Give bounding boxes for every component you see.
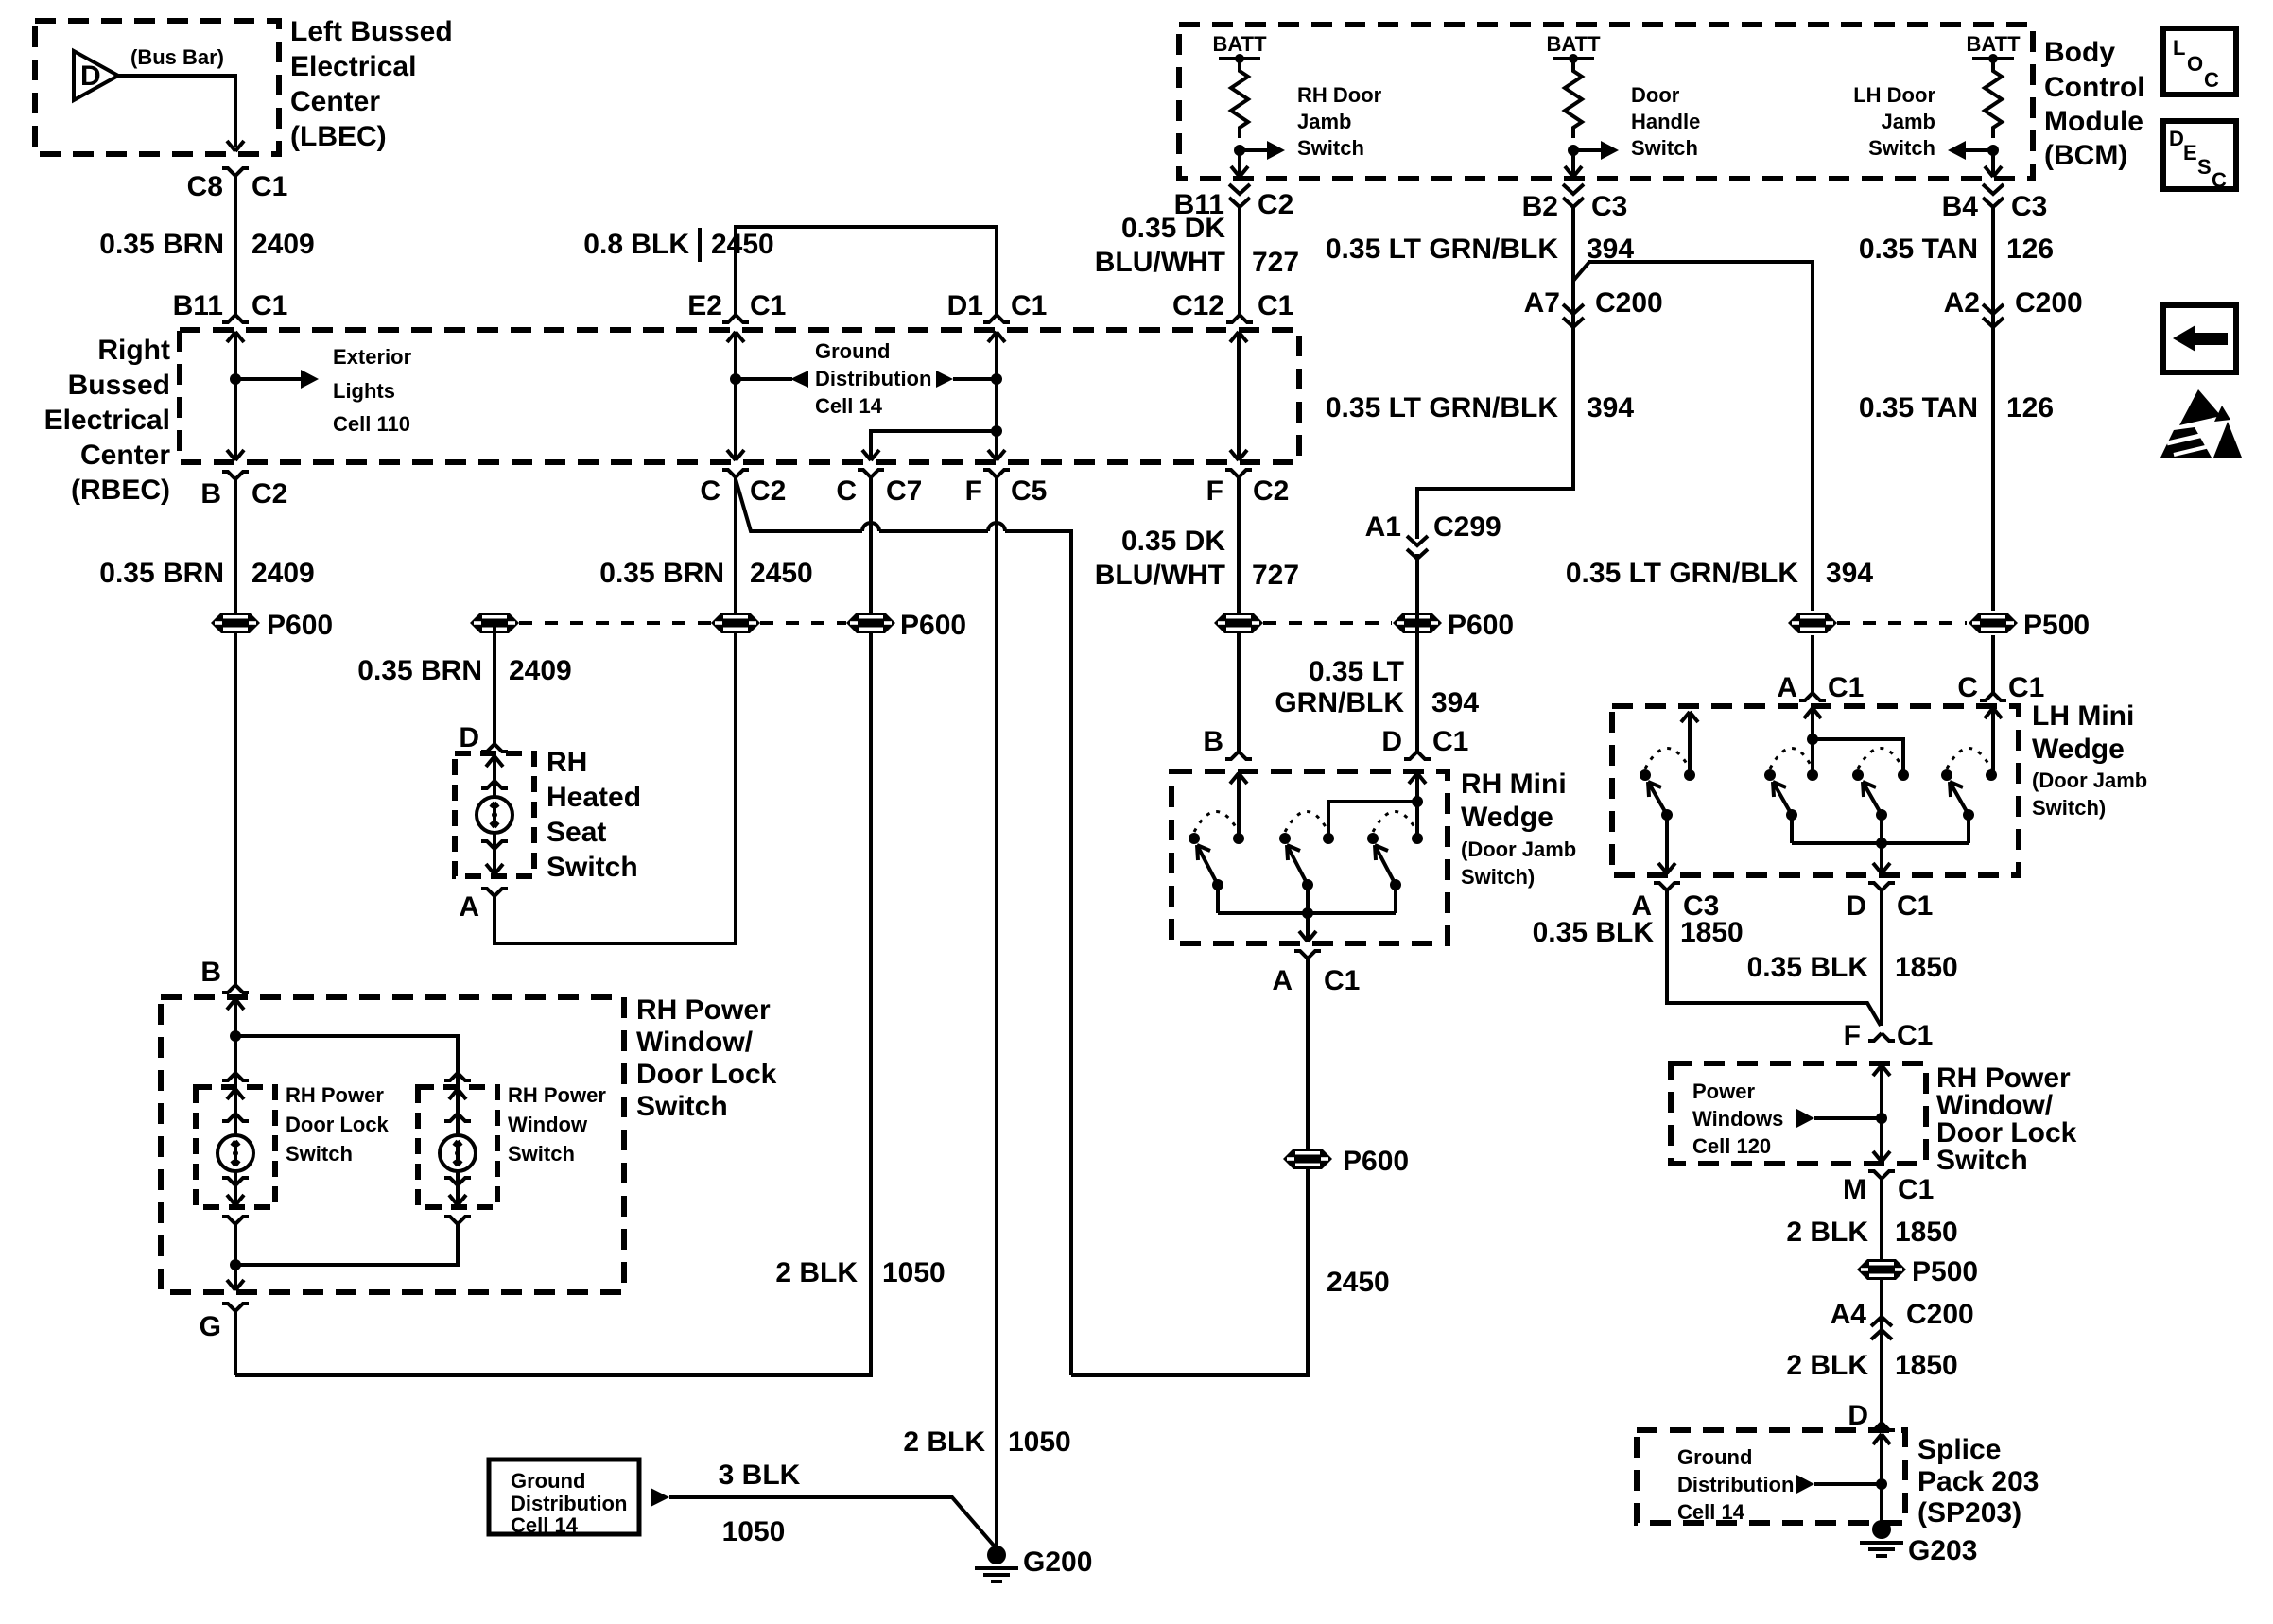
connector B4/C3 [1983, 184, 2004, 207]
svg-text:C1: C1 [1324, 965, 1360, 996]
connector D/C1 below LH wedge [1868, 883, 1895, 890]
connector D of heated seat switch [481, 744, 508, 752]
LH wedge C entry [1985, 708, 2002, 775]
svg-text:B: B [200, 957, 221, 988]
svg-text:LH Door: LH Door [1853, 83, 1935, 107]
svg-text:B11: B11 [173, 290, 223, 321]
svg-text:D: D [2169, 127, 2184, 150]
LH wedge switch 2 [1764, 749, 1818, 844]
wire B2 down [1571, 206, 1575, 326]
svg-text:(Bus Bar): (Bus Bar) [130, 45, 224, 69]
splice pack internals [1677, 1434, 1890, 1524]
svg-text:B2: B2 [1522, 191, 1558, 222]
svg-text:126: 126 [2006, 233, 2054, 265]
svg-text:E: E [2183, 141, 2197, 164]
svg-text:0.8 BLK: 0.8 BLK [583, 229, 689, 260]
svg-text:0.35 BLK: 0.35 BLK [1747, 952, 1869, 983]
svg-text:C8: C8 [187, 171, 223, 202]
svg-text:1050: 1050 [882, 1257, 946, 1288]
svg-text:Door: Door [1631, 83, 1680, 107]
svg-text:C12: C12 [1172, 290, 1224, 321]
svg-text:1850: 1850 [1895, 1350, 1958, 1381]
svg-text:E2: E2 [687, 290, 722, 321]
svg-text:C1: C1 [2008, 672, 2044, 703]
left arrow icon [2163, 305, 2236, 372]
ground G200 [975, 1546, 1018, 1583]
heated seat switch internals [477, 756, 512, 874]
svg-text:Ground: Ground [511, 1469, 585, 1493]
connector B2/C3 [1563, 184, 1584, 207]
svg-text:P600: P600 [1448, 610, 1514, 641]
svg-text:0.35 BLK: 0.35 BLK [1533, 917, 1655, 948]
svg-text:0.35 LT GRN/BLK: 0.35 LT GRN/BLK [1326, 392, 1558, 423]
arrow from ground distribution box [651, 1488, 669, 1507]
svg-text:C1: C1 [1897, 1020, 1933, 1051]
svg-text:G203: G203 [1908, 1535, 1977, 1566]
svg-text:0.35 LT GRN/BLK: 0.35 LT GRN/BLK [1326, 233, 1558, 265]
RH Power Window Switch inner box [418, 1087, 497, 1207]
svg-text:C1: C1 [750, 290, 786, 321]
svg-text:Left Bussed: Left Bussed [290, 16, 453, 47]
svg-text:Power: Power [1692, 1080, 1755, 1103]
splice P600 [211, 613, 260, 633]
Right Bussed Electrical Center (RBEC) box [180, 330, 1299, 462]
svg-text:D: D [459, 722, 479, 753]
BCM RH door jamb switch circuit [1212, 32, 1381, 177]
svg-text:0.35 DK: 0.35 DK [1121, 213, 1225, 244]
connector C/C7 [858, 470, 884, 477]
svg-text:Jamb: Jamb [1297, 110, 1351, 133]
svg-text:C1: C1 [1897, 890, 1933, 922]
svg-text:Door Lock: Door Lock [286, 1113, 390, 1136]
svg-text:RH Power: RH Power [286, 1083, 384, 1107]
svg-text:C200: C200 [1906, 1299, 1974, 1330]
wire 2409 to P600 [234, 479, 237, 985]
svg-text:(LBEC): (LBEC) [290, 121, 387, 152]
svg-text:D: D [1846, 890, 1866, 922]
switch box feed wires [222, 999, 471, 1087]
RBEC internal wire left column [227, 332, 412, 460]
dashes between P500 splices [1837, 621, 1967, 625]
svg-text:RH Door: RH Door [1297, 83, 1382, 107]
svg-text:BATT: BATT [1212, 32, 1267, 56]
BCM door handle switch circuit [1546, 32, 1700, 177]
svg-text:1050: 1050 [1008, 1426, 1071, 1458]
svg-text:L: L [2173, 36, 2185, 60]
svg-text:1050: 1050 [722, 1516, 786, 1547]
svg-text:B: B [200, 478, 221, 510]
connector A/C3 below LH wedge [1654, 883, 1680, 890]
splice P500 lower [1857, 1259, 1906, 1280]
svg-text:C2: C2 [252, 478, 287, 510]
svg-text:2409: 2409 [252, 558, 315, 589]
splice P600 heated seat branch [470, 613, 519, 633]
RH Heated Seat Switch box [455, 753, 534, 876]
RH wedge output bus [1218, 907, 1396, 942]
svg-text:0.35 BRN: 0.35 BRN [599, 558, 724, 589]
svg-text:C2: C2 [750, 475, 786, 507]
svg-text:BLU/WHT: BLU/WHT [1095, 560, 1225, 591]
svg-text:A: A [1777, 672, 1797, 703]
RH wedge switch 1 [1189, 812, 1244, 914]
RH wedge switch 3 [1367, 812, 1423, 914]
svg-text:A2: A2 [1944, 287, 1980, 319]
Body Control Module (BCM) box [1179, 25, 2033, 179]
svg-text:(Door Jamb: (Door Jamb [2032, 769, 2147, 792]
svg-text:Control: Control [2044, 72, 2145, 103]
svg-text:S: S [2197, 155, 2212, 179]
svg-text:C1: C1 [1258, 290, 1293, 321]
svg-text:BATT: BATT [1546, 32, 1601, 56]
svg-text:Center: Center [80, 440, 170, 471]
svg-text:2409: 2409 [252, 229, 315, 260]
svg-text:F: F [1206, 475, 1223, 507]
connector A/C1 LH wedge [1799, 693, 1826, 700]
svg-text:Module: Module [2044, 106, 2143, 137]
splice P600 [1283, 1149, 1332, 1169]
wire C/C2 down to heated seat loop [495, 477, 736, 943]
svg-text:Cell 14: Cell 14 [1677, 1500, 1745, 1524]
hop over C7 wire [862, 523, 879, 531]
svg-text:2450: 2450 [1327, 1267, 1390, 1298]
wire G to C7 column [234, 1311, 237, 1375]
svg-text:Switch: Switch [636, 1091, 728, 1122]
svg-text:B4: B4 [1942, 191, 1979, 222]
svg-text:C3: C3 [2011, 191, 2047, 222]
connector B above power window switch box [222, 985, 249, 993]
connector C/C2 [722, 470, 749, 477]
connector G [222, 1304, 249, 1311]
svg-text:Exterior: Exterior [333, 345, 412, 369]
wire from bus bar to C8 [118, 76, 235, 147]
svg-text:Ground: Ground [815, 339, 890, 363]
svg-text:0.35 BRN: 0.35 BRN [99, 558, 224, 589]
svg-text:Lights: Lights [333, 379, 395, 403]
svg-text:C2: C2 [1253, 475, 1289, 507]
svg-text:C3: C3 [1591, 191, 1627, 222]
LH wedge output bus [1792, 838, 1969, 873]
svg-text:Distribution: Distribution [1677, 1473, 1794, 1496]
svg-text:394: 394 [1587, 392, 1634, 423]
wire 2409 LBEC to RBEC [234, 176, 237, 315]
arrow to Exterior Lights [235, 377, 301, 381]
svg-text:Center: Center [290, 86, 380, 117]
wire P500 to LH wedge A [1811, 635, 1814, 693]
svg-text:Switch: Switch [286, 1142, 353, 1166]
svg-text:Electrical: Electrical [290, 51, 416, 82]
svg-text:2409: 2409 [509, 655, 572, 686]
svg-text:2 BLK: 2 BLK [1786, 1350, 1868, 1381]
BCM LH door jamb switch circuit [1853, 32, 2021, 177]
svg-text:0.35 BRN: 0.35 BRN [357, 655, 482, 686]
svg-text:Window/: Window/ [636, 1027, 754, 1058]
svg-text:727: 727 [1252, 247, 1299, 278]
svg-text:D1: D1 [947, 290, 983, 321]
svg-text:C: C [2204, 68, 2219, 92]
svg-text:RH Power: RH Power [636, 994, 771, 1026]
svg-text:2 BLK: 2 BLK [775, 1257, 858, 1288]
wire 727 BCM to RBEC [1238, 206, 1241, 315]
svg-text:C5: C5 [1011, 475, 1047, 507]
connector A/C1 below RH wedge [1294, 951, 1321, 959]
svg-text:A4: A4 [1831, 1299, 1867, 1330]
svg-text:BATT: BATT [1966, 32, 2021, 56]
connector D1/C1 [983, 315, 1010, 322]
wire A1 to RH wedge D [1415, 554, 1419, 752]
svg-text:G: G [200, 1311, 221, 1342]
RH wedge D entry [1328, 773, 1426, 838]
window switch internals [440, 1089, 476, 1205]
svg-text:Switch): Switch) [2032, 796, 2106, 820]
svg-text:A: A [459, 891, 479, 923]
ground G203 [1860, 1520, 1903, 1558]
svg-text:P600: P600 [1343, 1146, 1409, 1177]
svg-text:394: 394 [1431, 687, 1479, 718]
wire A/C3 to F/C1 [1667, 890, 1881, 1026]
svg-text:Switch: Switch [1868, 136, 1935, 160]
splice P500 right [1969, 613, 2018, 633]
svg-text:RH Power: RH Power [508, 1083, 606, 1107]
svg-text:0.35 LT GRN/BLK: 0.35 LT GRN/BLK [1566, 558, 1798, 589]
svg-text:Jamb: Jamb [1882, 110, 1935, 133]
D1 column internal wire [988, 332, 1005, 342]
svg-text:C200: C200 [2015, 287, 2083, 319]
svg-text:727: 727 [1252, 560, 1299, 591]
connector D/C1 of RH mini wedge [1404, 752, 1431, 759]
svg-text:A1: A1 [1365, 511, 1401, 543]
splice P600 on BRN 2450 [711, 613, 760, 633]
svg-text:C1: C1 [1432, 726, 1468, 757]
heated seat feed wire [493, 623, 496, 744]
connector C12/C1 [1226, 315, 1253, 322]
wire F/C5 column down to G200 [995, 477, 998, 1548]
wire F/C2 column down to RH mini wedge [1237, 477, 1241, 752]
svg-text:Distribution: Distribution [511, 1492, 627, 1515]
svg-text:2 BLK: 2 BLK [1786, 1217, 1868, 1248]
svg-text:Body: Body [2044, 37, 2115, 68]
node junction [230, 373, 241, 385]
svg-text:(SP203): (SP203) [1917, 1497, 2021, 1529]
svg-text:Electrical: Electrical [44, 405, 170, 436]
svg-text:126: 126 [2006, 392, 2054, 423]
svg-text:BLU/WHT: BLU/WHT [1095, 247, 1225, 278]
svg-text:2 BLK: 2 BLK [903, 1426, 985, 1458]
svg-text:M: M [1843, 1174, 1866, 1205]
svg-text:B: B [1203, 726, 1223, 757]
svg-text:Switch: Switch [547, 852, 638, 883]
svg-text:Windows: Windows [1692, 1107, 1783, 1131]
RH wedge switch 2 [1279, 812, 1334, 914]
svg-text:F: F [965, 475, 982, 507]
svg-text:0.35 TAN: 0.35 TAN [1859, 233, 1978, 265]
splice P600 on 394 branch [1393, 613, 1442, 633]
svg-text:C: C [1957, 672, 1978, 703]
left arrow to Ground Distribution [736, 377, 792, 381]
svg-text:G200: G200 [1023, 1546, 1092, 1578]
svg-text:D: D [1381, 726, 1402, 757]
svg-text:C2: C2 [1258, 189, 1293, 220]
svg-text:0.35 TAN: 0.35 TAN [1859, 392, 1978, 423]
LH wedge switch 4 [1941, 749, 1997, 844]
splice P500 left [1788, 613, 1837, 633]
RH wedge B entry [1230, 773, 1247, 838]
svg-text:P500: P500 [1912, 1256, 1978, 1287]
svg-text:C: C [700, 475, 720, 507]
svg-text:C299: C299 [1433, 511, 1501, 543]
hop over F/C5 wire [988, 523, 1005, 531]
svg-text:(BCM): (BCM) [2044, 140, 2127, 171]
switch outputs join wire [222, 1217, 471, 1290]
svg-text:LH Mini: LH Mini [2032, 700, 2134, 732]
connector C/C1 LH wedge [1980, 693, 2006, 700]
svg-text:Wedge: Wedge [1461, 802, 1553, 833]
door lock switch internals [217, 1089, 253, 1205]
svg-text:Switch: Switch [1631, 136, 1698, 160]
connector A of heated seat switch [481, 889, 508, 896]
svg-text:Switch: Switch [1297, 136, 1364, 160]
wire D/C1 to F/C1 [1880, 890, 1883, 1026]
connector B11/C1 [222, 315, 249, 322]
svg-text:Cell 14: Cell 14 [511, 1513, 579, 1537]
RH Power Window / Door Lock Switch box [161, 997, 624, 1292]
connector B/C2 [222, 472, 249, 479]
svg-text:C200: C200 [1595, 287, 1663, 319]
svg-text:C1: C1 [252, 171, 287, 202]
svg-text:Distribution: Distribution [815, 367, 931, 390]
LOC icon [2163, 28, 2236, 95]
svg-text:Switch): Switch) [1461, 865, 1535, 889]
svg-text:Cell 120: Cell 120 [1692, 1134, 1771, 1158]
dashes to A1 branch splice [1263, 621, 1392, 625]
splice P600 on C7 wire [846, 613, 895, 633]
svg-text:P600: P600 [900, 610, 966, 641]
svg-text:C1: C1 [1011, 290, 1047, 321]
wire C/C7 down [235, 477, 871, 1375]
svg-text:Door Lock: Door Lock [636, 1059, 777, 1090]
svg-text:C1: C1 [252, 290, 287, 321]
connector C8/C1 [222, 168, 249, 176]
svg-text:D: D [1848, 1400, 1868, 1431]
connector B of RH mini wedge [1225, 752, 1252, 759]
svg-text:P600: P600 [267, 610, 333, 641]
wire A/C1 down through P600 to 2450 loop [1071, 959, 1308, 1375]
Splice Pack 203 box [1637, 1430, 1905, 1523]
svg-text:Seat: Seat [547, 817, 606, 848]
svg-text:Wedge: Wedge [2032, 734, 2125, 765]
svg-text:F: F [1844, 1020, 1861, 1051]
dashes splice link [519, 621, 711, 625]
svg-text:A7: A7 [1524, 287, 1560, 319]
LH wedge A entry [1804, 708, 1903, 775]
svg-text:GRN/BLK: GRN/BLK [1275, 687, 1404, 718]
RH Mini Wedge box [1171, 771, 1448, 943]
connector M/C1 [1868, 1171, 1895, 1179]
svg-text:P500: P500 [2023, 610, 2090, 641]
wire A7 jog to A1/C299 [1417, 326, 1573, 539]
svg-text:394: 394 [1826, 558, 1873, 589]
LH Mini Wedge box [1612, 706, 2019, 875]
LH wedge switch 1 (no external) [1640, 712, 1698, 873]
Left Bussed Electrical Center (LBEC) box [35, 21, 279, 154]
svg-text:C: C [2212, 168, 2227, 192]
connector B11/C2 [1229, 184, 1250, 207]
svg-text:0.35 LT: 0.35 LT [1309, 656, 1404, 687]
svg-text:Switch: Switch [508, 1142, 575, 1166]
svg-text:A: A [1272, 965, 1293, 996]
branch to P500 column [1573, 262, 1813, 611]
wire B4 down [1991, 206, 1995, 611]
svg-text:Splice: Splice [1917, 1434, 2001, 1465]
svg-text:C1: C1 [1898, 1174, 1934, 1205]
svg-text:2450: 2450 [711, 229, 774, 260]
svg-text:Pack 203: Pack 203 [1917, 1466, 2039, 1497]
connector E2/C1 [722, 315, 749, 322]
svg-text:3 BLK: 3 BLK [719, 1460, 801, 1491]
wire M to splice pack [1880, 1179, 1883, 1428]
connector F/C2 [1225, 470, 1252, 477]
RBEC C12 internal wire [1230, 332, 1247, 460]
LH wedge switch 3 [1852, 749, 1909, 844]
svg-text:(RBEC): (RBEC) [71, 475, 170, 506]
svg-text:D: D [80, 60, 101, 92]
right arrow from Ground Distribution [936, 371, 953, 388]
connector F/C5 [983, 470, 1010, 477]
splice P600 on 727 wire [1214, 613, 1263, 633]
svg-text:(Door Jamb: (Door Jamb [1461, 838, 1576, 861]
svg-text:C1: C1 [1828, 672, 1864, 703]
svg-text:Right: Right [97, 335, 170, 366]
svg-text:2450: 2450 [750, 558, 813, 589]
svg-text:Window: Window [508, 1113, 588, 1136]
svg-text:1850: 1850 [1895, 952, 1958, 983]
connector F/C1 [1868, 1033, 1895, 1041]
wire 3 BLK 1050 to G200 [669, 1497, 995, 1546]
svg-text:Handle: Handle [1631, 110, 1700, 133]
svg-text:Ground: Ground [1677, 1445, 1752, 1469]
svg-text:Cell 14: Cell 14 [815, 394, 883, 418]
svg-text:Switch: Switch [1936, 1145, 2028, 1176]
RH Power Window/Door Lock Switch box (right) [1671, 1063, 1926, 1164]
svg-text:C7: C7 [886, 475, 922, 507]
wire 2450 diagonal branch [736, 479, 1071, 1375]
svg-text:Heated: Heated [547, 782, 641, 813]
svg-text:O: O [2187, 52, 2203, 76]
svg-text:0.35 BRN: 0.35 BRN [99, 229, 224, 260]
wire P500 to LH wedge C [1991, 635, 1995, 693]
RBEC internal ground distribution wires [727, 332, 1005, 460]
power windows feed internals [1692, 1065, 1890, 1162]
svg-text:C: C [836, 475, 857, 507]
DESC icon [2163, 121, 2236, 192]
arrow down at LBEC edge [227, 141, 244, 151]
svg-text:0.35 DK: 0.35 DK [1121, 526, 1225, 557]
svg-text:1850: 1850 [1680, 917, 1744, 948]
bus bar triangle D [74, 51, 118, 100]
0.8 BLK 2450 bridge wire [736, 227, 997, 315]
ESD symbol [2160, 389, 2242, 458]
svg-text:RH: RH [547, 747, 587, 778]
svg-text:1850: 1850 [1895, 1217, 1958, 1248]
resistor [1231, 59, 1248, 138]
RH Power Door Lock Switch inner box [196, 1087, 275, 1207]
svg-text:Cell 110: Cell 110 [333, 412, 410, 436]
branch to C7 column [991, 425, 1002, 437]
Ground Distribution Cell 14 box (solid) [489, 1460, 639, 1537]
svg-text:Bussed: Bussed [68, 370, 170, 401]
svg-text:RH Mini: RH Mini [1461, 769, 1567, 800]
